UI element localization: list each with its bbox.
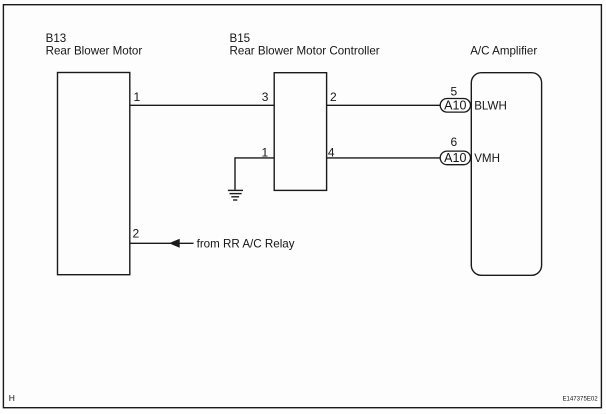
connector B13 label: [46, 32, 143, 58]
svg-text:B13: B13: [46, 32, 67, 45]
svg-text:2: 2: [132, 226, 139, 240]
svg-text:A10: A10: [444, 151, 466, 165]
svg-text:E147375E02: E147375E02: [562, 396, 598, 403]
wire B15 pin4 to A10 terminal 6: [327, 157, 441, 159]
svg-text:5: 5: [451, 85, 458, 99]
svg-text:3: 3: [262, 90, 269, 104]
wire B15 pin2 to A10 terminal 5: [327, 104, 441, 106]
svg-text:BLWH: BLWH: [474, 100, 507, 113]
svg-text:from RR A/C Relay: from RR A/C Relay: [197, 237, 295, 250]
connector B13 Rear Blower Motor box: [58, 73, 130, 275]
svg-text:VMH: VMH: [474, 152, 500, 165]
wire B13 pin2 to RR A/C relay: [130, 242, 194, 244]
connector B15 label: [230, 32, 380, 58]
connector B15 Rear Blower Motor Controller box: [274, 73, 326, 191]
terminal oval A10 (BLWH): [440, 99, 470, 113]
svg-text:Rear Blower Motor Controller: Rear Blower Motor Controller: [230, 44, 380, 57]
svg-text:H: H: [9, 393, 15, 403]
arrowhead from RR A/C Relay: [169, 239, 180, 248]
svg-text:Rear Blower Motor: Rear Blower Motor: [46, 44, 143, 57]
A/C Amplifier box: [471, 73, 541, 276]
terminal oval A10 (VMH): [440, 151, 470, 165]
svg-text:1: 1: [133, 90, 140, 104]
wire B13 pin1 to B15 pin3: [130, 104, 274, 106]
svg-text:A/C Amplifier: A/C Amplifier: [470, 44, 537, 57]
ground: [228, 190, 243, 200]
svg-text:A10: A10: [444, 99, 466, 113]
svg-text:B15: B15: [230, 32, 251, 45]
svg-text:6: 6: [451, 135, 458, 149]
svg-text:2: 2: [330, 90, 337, 104]
wire B15 pin1 to ground: [235, 158, 274, 190]
